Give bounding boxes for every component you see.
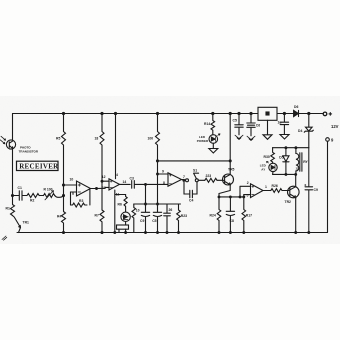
RECEIVER box label xyxy=(17,161,60,170)
resistor R2 xyxy=(27,194,39,203)
node C3 output xyxy=(144,183,147,186)
diode D6 xyxy=(294,105,299,117)
capacitor C7 output filter xyxy=(278,114,289,135)
switch S1 xyxy=(184,169,199,182)
capacitor C6 electrolytic rail xyxy=(247,114,260,136)
terminal 9V output xyxy=(326,137,334,142)
node rail R8 xyxy=(100,112,103,115)
capacitor C4 xyxy=(184,182,197,203)
resistor R26 xyxy=(271,184,282,192)
label pin 11 xyxy=(296,167,300,171)
node U2 non-inverting tap xyxy=(101,180,104,183)
capacitor C1 xyxy=(13,186,28,200)
relay top bus xyxy=(273,147,309,149)
wire R26 to TR2 base xyxy=(282,190,290,192)
resistor R21 xyxy=(177,204,187,233)
phototransistor TR collector wire xyxy=(12,114,14,141)
node rail R5 xyxy=(62,112,65,115)
voltage regulator IC box xyxy=(258,107,277,120)
resistor R6 xyxy=(118,195,128,213)
node bus C9 xyxy=(144,203,147,206)
ground below LED POWER xyxy=(209,143,218,153)
ground below regulator xyxy=(263,135,272,140)
resistor R7 xyxy=(95,210,105,233)
wire node to U2 +input xyxy=(102,181,109,210)
wire phototransistor emitter down xyxy=(12,149,14,196)
resistor R30 xyxy=(264,148,275,164)
wire regulator ground xyxy=(267,120,269,134)
wire emitter bus xyxy=(219,196,244,198)
wire horizontal to TR5 collector xyxy=(158,160,231,162)
node D5 bottom xyxy=(284,173,287,176)
node bottom rail pin11 xyxy=(113,231,116,234)
node signal input junction xyxy=(11,194,14,197)
capacitor C5 rail xyxy=(233,114,244,135)
node relay top xyxy=(294,146,297,149)
wire LED to bottom bus xyxy=(272,172,274,175)
capacitor C9 electrolytic xyxy=(140,204,150,233)
node U1 output xyxy=(95,187,98,190)
node C8 tap xyxy=(229,195,232,198)
node rail R 100k xyxy=(156,112,159,115)
transistor TR2 xyxy=(285,186,300,204)
wire TR2 collector up to relay xyxy=(295,174,297,186)
node D5 top xyxy=(284,146,287,149)
terminal +12V xyxy=(323,112,338,129)
wire TR5 emitter down xyxy=(219,185,230,197)
wire node down to bias bus xyxy=(145,184,147,204)
wire U2 pin11 down xyxy=(115,190,126,233)
node rail C5cap xyxy=(237,112,240,115)
photo transistor xyxy=(6,140,15,149)
wire pot to node xyxy=(55,196,64,198)
wire feedback up to output xyxy=(89,189,91,205)
resistor R10 xyxy=(132,204,140,233)
LED D2 transmit indicator xyxy=(260,161,277,171)
wire U1 output xyxy=(91,188,97,190)
node bottom rail LED leg xyxy=(124,231,127,234)
capacitor C10 on regulated line xyxy=(305,148,318,233)
node U3 +input tap xyxy=(156,173,159,176)
wire 9V terminal to ground rail xyxy=(327,141,329,232)
node pot output xyxy=(62,194,65,197)
decorative scan mark bottom-left xyxy=(2,236,7,240)
wire R23 to TR5 base xyxy=(217,179,225,181)
resistor R23 xyxy=(205,174,217,182)
ground below C6 xyxy=(247,136,255,140)
label PHOTO TRANSISTOR xyxy=(19,145,39,153)
light arrows into photo transistor xyxy=(0,136,5,144)
LED D1 xyxy=(121,212,130,221)
node bottom rail group2 xyxy=(218,231,221,234)
capacitor C8 electrolytic xyxy=(226,197,234,233)
node emitter bus left xyxy=(218,195,221,198)
LED POWER indicator xyxy=(197,134,220,144)
wire U4 -input xyxy=(244,195,251,197)
wire top supply rail xyxy=(13,113,324,115)
wire switch to R23 xyxy=(198,179,205,181)
wire U4 +input xyxy=(240,186,251,197)
node op-amp U1 +input tap xyxy=(62,183,65,186)
capacitor C6 small xyxy=(164,204,173,233)
resistor R1 on left leg xyxy=(6,196,15,216)
node bottom rail group xyxy=(144,231,147,234)
resistor R14 xyxy=(204,114,215,135)
ground below C7 xyxy=(280,135,289,140)
wire vertical continues xyxy=(157,161,159,204)
node 12V junction xyxy=(307,112,310,115)
node rail R14 xyxy=(211,112,214,115)
op-amp U4 xyxy=(247,181,268,197)
node bus C5 xyxy=(156,203,159,206)
wire U1 inverting input to feedback xyxy=(71,192,77,205)
node +input bias xyxy=(239,195,242,198)
resistor R24 xyxy=(210,197,221,233)
potentiometer R 100 xyxy=(44,188,55,200)
wire rail to TR5 collector xyxy=(229,114,231,175)
resistor R8 vertical xyxy=(95,114,105,182)
wire TR2 emitter to ground rail xyxy=(295,198,297,233)
node rail V+ feed xyxy=(114,112,117,115)
node TR2 collector junction xyxy=(294,173,297,176)
resistor R17 xyxy=(242,197,252,233)
resistor R5 vertical xyxy=(56,114,66,186)
relay bottom bus xyxy=(273,173,296,175)
wire node to U3 inverting input xyxy=(146,183,169,185)
transistor TR1 emitter arrow xyxy=(13,216,30,233)
wire V+ pin4 of U2 xyxy=(115,114,117,179)
relay coil RY xyxy=(296,148,309,175)
wire to U2 inverting input xyxy=(97,187,110,188)
transistor TR5 xyxy=(223,167,235,185)
op-amp U1 xyxy=(70,178,91,197)
node collector junction xyxy=(229,159,232,162)
ground below C5 xyxy=(235,135,243,139)
wire to U3 +input xyxy=(158,173,169,175)
wire U4 output xyxy=(263,190,271,192)
resistor 100 vertical xyxy=(148,114,160,161)
zener D4 xyxy=(298,114,313,148)
node rail long drop xyxy=(229,112,232,115)
bias bus under U3 xyxy=(134,203,181,205)
footswitch box below LED xyxy=(117,222,129,233)
capacitor C3 xyxy=(130,177,146,189)
resistor R4 xyxy=(57,196,66,233)
resistor R3 feedback xyxy=(71,199,88,207)
node bottom rail TR2 xyxy=(294,231,297,234)
node regulator output xyxy=(283,112,286,115)
node bottom rail C10 xyxy=(307,231,310,234)
node bottom rail R7 xyxy=(100,231,103,234)
node bottom rail xyxy=(62,231,65,234)
diode D5 flyback xyxy=(279,148,289,175)
wire node to U1 xyxy=(64,185,77,196)
node collector feed junction xyxy=(156,159,159,162)
wire xyxy=(39,195,43,197)
wire bottom ground rail xyxy=(17,232,328,234)
op-amp U2 xyxy=(102,173,127,196)
node rail C6cap xyxy=(249,112,252,115)
node U3 output xyxy=(182,179,185,182)
op-amp U3 xyxy=(162,170,185,187)
wire U3 output xyxy=(182,179,184,181)
wire U2 output xyxy=(120,183,131,185)
node R17 tap xyxy=(242,195,245,198)
capacitor C5 electrolytic xyxy=(152,204,162,233)
